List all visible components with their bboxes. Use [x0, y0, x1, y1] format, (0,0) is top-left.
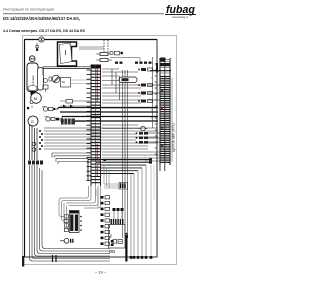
svg-text:топливо: топливо — [32, 75, 35, 85]
svg-text:упр: упр — [110, 234, 113, 238]
svg-text:Инструкция по эксплуатации: Инструкция по эксплуатации — [3, 8, 54, 12]
svg-text:DS 14/22/26A/30A/44/55A/60/137: DS 14/22/26A/30A/44/55A/60/137 DA ES, — [3, 16, 80, 21]
svg-text:www.fubag.ru: www.fubag.ru — [172, 15, 189, 19]
svg-text:G: G — [31, 119, 34, 124]
svg-text:– 19 –: – 19 – — [95, 270, 107, 275]
svg-text:ЩИТОК АВР (ATS): ЩИТОК АВР (ATS) — [172, 123, 176, 152]
svg-text:ТД: ТД — [62, 81, 65, 84]
svg-text:M: M — [34, 96, 37, 101]
svg-text:4.4 Схема электрич. DS 27 DA E: 4.4 Схема электрич. DS 27 DA ES, DS 44 D… — [3, 29, 86, 33]
